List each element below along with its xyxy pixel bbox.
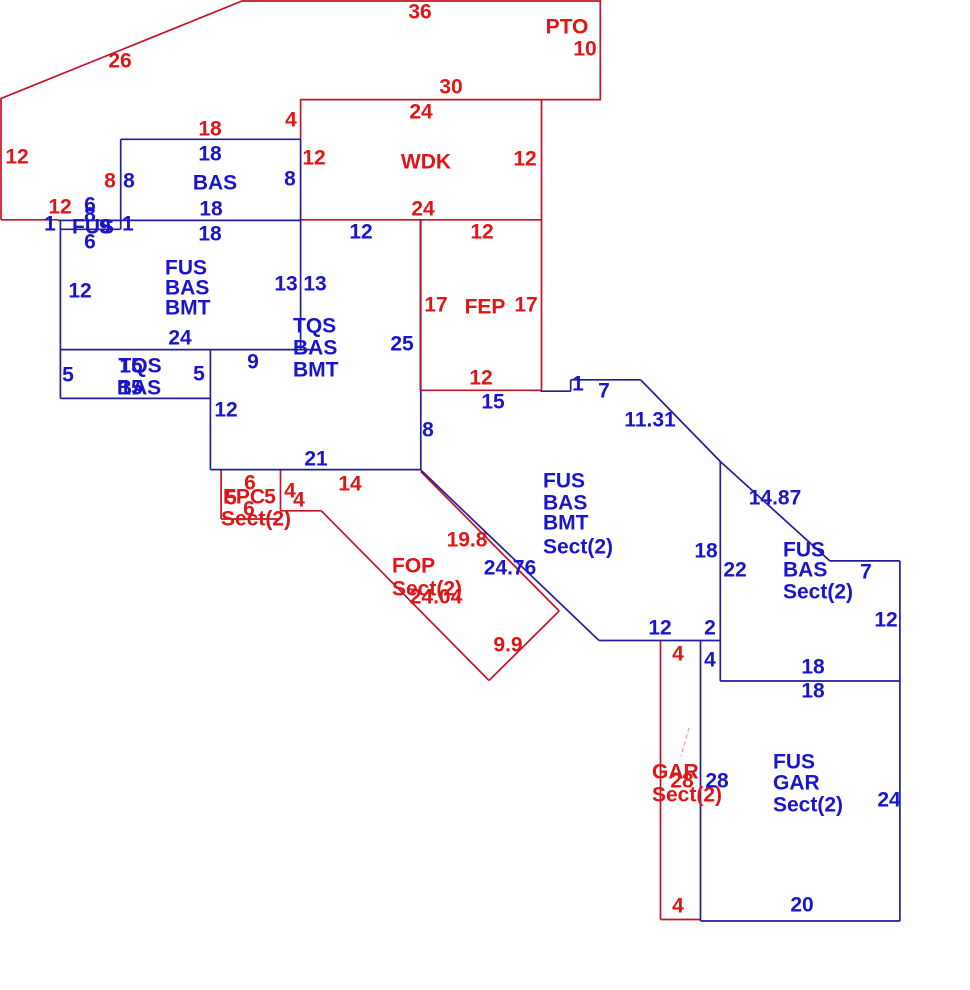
- svg-text:12: 12: [349, 221, 372, 244]
- svg-text:15: 15: [481, 391, 505, 414]
- GAR left edge 28: [660, 641, 662, 920]
- FUS GAR bottom edge 20: [701, 920, 900, 922]
- svg-text:24: 24: [168, 327, 192, 350]
- svg-text:15: 15: [119, 377, 143, 400]
- svg-text:18: 18: [199, 198, 223, 221]
- edge 21 horizontal: [210, 469, 420, 471]
- svg-text:12: 12: [68, 280, 91, 303]
- svg-text:13: 13: [274, 273, 297, 296]
- svg-text:12: 12: [470, 221, 493, 244]
- svg-text:BMT: BMT: [165, 297, 211, 320]
- svg-text:FUS: FUS: [773, 751, 815, 774]
- svg-text:10: 10: [573, 38, 596, 61]
- house left edge 12: [59, 220, 61, 398]
- svg-text:FEP: FEP: [465, 296, 506, 319]
- FOP lower-right diagonal 9.9: [489, 611, 559, 681]
- svg-text:Sect(2): Sect(2): [543, 536, 613, 559]
- svg-text:9: 9: [99, 216, 111, 239]
- svg-text:PTO: PTO: [546, 16, 589, 39]
- svg-text:5: 5: [264, 486, 276, 509]
- TQS BAS small rect bottom 15: [60, 397, 210, 399]
- svg-text:28: 28: [705, 770, 729, 793]
- FPC right / FOP left edge 4: [280, 470, 282, 511]
- svg-text:4: 4: [672, 643, 684, 666]
- FOP jog edge 4: [281, 510, 322, 512]
- svg-text:15: 15: [119, 355, 143, 378]
- svg-text:12: 12: [469, 367, 492, 390]
- svg-text:11.31: 11.31: [624, 409, 676, 432]
- edge 15 horizontal: [541, 390, 571, 392]
- shared edge 13/13: [300, 139, 302, 349]
- svg-text:18: 18: [198, 118, 222, 141]
- svg-text:18: 18: [198, 143, 222, 166]
- svg-text:FUS: FUS: [543, 470, 585, 493]
- BAS top edge 18: [121, 138, 301, 140]
- svg-text:12: 12: [214, 399, 237, 422]
- svg-text:Sect(2): Sect(2): [783, 581, 853, 604]
- svg-text:8: 8: [104, 170, 116, 193]
- BAS left edge 8 + notch: [120, 139, 122, 229]
- right edge 12/24: [899, 561, 901, 921]
- FOP lower-left diagonal 21.04: [321, 511, 489, 681]
- svg-text:18: 18: [198, 223, 222, 246]
- svg-text:BAS: BAS: [193, 172, 237, 195]
- svg-text:8: 8: [123, 170, 135, 193]
- edge 7 horizontal: [571, 379, 641, 381]
- svg-text:9.9: 9.9: [493, 634, 522, 657]
- svg-text:12: 12: [513, 148, 536, 171]
- svg-text:26: 26: [108, 50, 131, 73]
- edge 1 vertical: [570, 380, 572, 391]
- WDK bottom / FEP top: [301, 219, 542, 221]
- PTO patio outline: [1, 1, 600, 220]
- svg-text:18: 18: [801, 680, 825, 703]
- svg-text:5: 5: [193, 363, 205, 386]
- PTO bottom edge 30 / WDK top: [301, 100, 601, 140]
- svg-text:7: 7: [860, 561, 872, 584]
- svg-text:4: 4: [293, 489, 305, 512]
- GAR bottom edge 4: [661, 919, 701, 921]
- FUS notch bottom 6: [60, 228, 120, 230]
- svg-text:24: 24: [411, 198, 435, 221]
- svg-text:8: 8: [422, 419, 434, 442]
- svg-text:14: 14: [338, 473, 362, 496]
- svg-text:12: 12: [874, 609, 897, 632]
- svg-text:36: 36: [408, 1, 431, 24]
- svg-text:14.87: 14.87: [749, 487, 802, 510]
- svg-text:BMT: BMT: [543, 512, 589, 535]
- FPC left edge: [220, 470, 222, 519]
- edge 12 vertical: [209, 350, 211, 470]
- TQS right edge 25 (under FEP): [419, 220, 421, 390]
- svg-text:2: 2: [704, 617, 716, 640]
- FPC bottom edge: [221, 518, 280, 520]
- svg-text:Sect(2): Sect(2): [221, 508, 291, 531]
- edge 18/18 horizontal: [720, 680, 900, 682]
- svg-text:TQS: TQS: [293, 315, 336, 338]
- edge 8 vertical: [420, 390, 422, 469]
- FUS GAR left edge 28: [700, 641, 702, 922]
- svg-text:20: 20: [790, 894, 813, 917]
- svg-text:24.04: 24.04: [410, 586, 463, 609]
- svg-text:BAS: BAS: [783, 559, 827, 582]
- svg-text:12: 12: [648, 617, 671, 640]
- house top edge 18: [58, 219, 301, 221]
- PTO bottom-left edge 12: [1, 219, 58, 221]
- svg-text:1: 1: [572, 373, 584, 396]
- svg-text:24.76: 24.76: [484, 557, 537, 580]
- svg-text:30: 30: [439, 76, 462, 99]
- svg-text:4: 4: [285, 109, 297, 132]
- svg-text:BAS: BAS: [293, 337, 337, 360]
- svg-text:21: 21: [304, 448, 328, 471]
- svg-text:5: 5: [225, 487, 237, 510]
- diagonal 24.76: [421, 470, 599, 641]
- svg-text:4: 4: [704, 649, 716, 672]
- svg-text:Sect(2): Sect(2): [773, 794, 843, 817]
- svg-text:19.8: 19.8: [447, 529, 488, 552]
- svg-text:BMT: BMT: [293, 359, 339, 382]
- edge 7 horizontal right: [830, 560, 900, 562]
- svg-text:17: 17: [514, 294, 537, 317]
- svg-text:9: 9: [247, 351, 259, 374]
- FOP upper diagonal 19.8: [421, 472, 559, 612]
- svg-text:1: 1: [44, 213, 56, 236]
- svg-text:4: 4: [672, 895, 684, 918]
- svg-text:22: 22: [723, 559, 746, 582]
- svg-text:18: 18: [801, 656, 825, 679]
- edge 22/18 vertical: [719, 462, 721, 682]
- svg-text:12: 12: [302, 147, 325, 170]
- diagonal 11.31: [641, 380, 721, 462]
- faint dashed connector: [681, 728, 689, 756]
- svg-text:6: 6: [84, 231, 96, 254]
- svg-text:FOP: FOP: [392, 555, 435, 578]
- svg-text:12: 12: [5, 146, 28, 169]
- diagonal 14.87: [720, 462, 830, 561]
- svg-text:18: 18: [694, 540, 718, 563]
- svg-text:13: 13: [303, 273, 326, 296]
- svg-text:5: 5: [62, 364, 74, 387]
- svg-text:7: 7: [598, 380, 610, 403]
- house edge 24/9: [60, 349, 320, 351]
- svg-text:25: 25: [390, 333, 414, 356]
- svg-text:1: 1: [122, 213, 134, 236]
- edge 12/2 horizontal: [599, 640, 720, 642]
- FEP left edge: [420, 220, 422, 390]
- svg-text:8: 8: [284, 168, 296, 191]
- FEP bottom edge: [421, 389, 542, 391]
- svg-text:GAR: GAR: [773, 772, 820, 795]
- svg-text:WDK: WDK: [401, 151, 451, 174]
- svg-text:24: 24: [877, 789, 901, 812]
- WDK right edge / FEP right edge: [541, 100, 543, 391]
- svg-text:24: 24: [409, 101, 433, 124]
- svg-text:17: 17: [424, 294, 447, 317]
